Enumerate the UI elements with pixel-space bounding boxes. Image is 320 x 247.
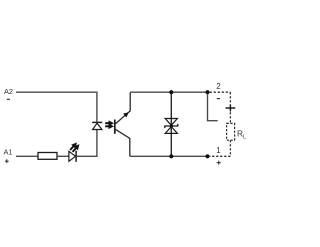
junction dot TVS bottom: [169, 154, 173, 158]
polarity minus at A2: [7, 98, 10, 100]
wire A2 top rail to optocoupler LED: [16, 92, 97, 122]
node terminal 1: [205, 154, 209, 158]
optocoupler LED: [92, 122, 102, 129]
svg-text:RL: RL: [237, 129, 247, 141]
wire A1 to resistor: [16, 155, 38, 157]
dashed wire node 2 to external branch: [210, 91, 231, 93]
resistor (input series): [38, 153, 57, 160]
junction dot TVS top: [169, 90, 173, 94]
wire TVS branch: [170, 92, 172, 156]
dashed wire external branch upper: [229, 92, 231, 123]
optocoupler light arrows: [105, 121, 113, 128]
resistor RL (load): [227, 123, 235, 140]
svg-text:1: 1: [216, 146, 221, 155]
LED indicator diode: [69, 151, 76, 162]
polarity plus at terminal 1: [217, 161, 221, 165]
wire output bottom rail: [130, 155, 208, 157]
dashed wire external branch lower: [229, 140, 231, 156]
phototransistor: [115, 92, 130, 156]
wire resistor to LED: [57, 155, 69, 157]
node terminal 2: [205, 90, 209, 94]
external supply polarity plus: [226, 105, 236, 112]
TVS suppressor diode: [165, 119, 178, 134]
svg-text:2: 2: [216, 82, 221, 91]
svg-text:A2: A2: [4, 87, 13, 96]
svg-text:A1: A1: [4, 147, 13, 156]
polarity plus at A1: [5, 159, 9, 163]
internal output bracket: [208, 94, 218, 121]
LED emission arrows: [70, 143, 79, 152]
dashed wire external branch to node 1: [210, 155, 231, 157]
polarity minus at terminal 2: [217, 98, 220, 100]
wire output top rail: [130, 91, 207, 93]
wire LED to optocoupler LED bottom: [76, 130, 97, 157]
